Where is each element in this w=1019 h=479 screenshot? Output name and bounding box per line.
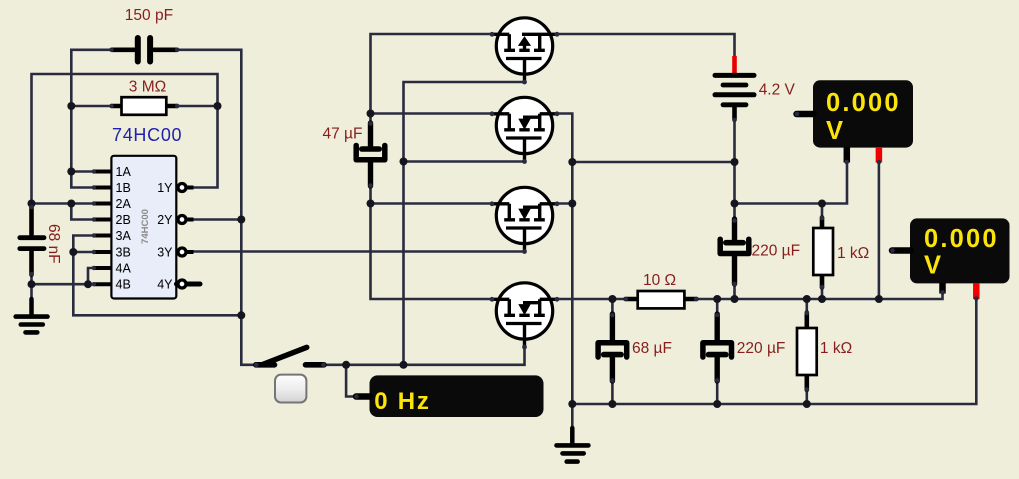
svg-text:74HC00: 74HC00 [140, 209, 151, 244]
svg-text:4.2 V: 4.2 V [759, 82, 796, 99]
svg-text:3Y: 3Y [157, 246, 173, 260]
svg-text:0.000: 0.000 [924, 225, 999, 253]
svg-text:220 µF: 220 µF [752, 243, 801, 260]
svg-text:2Y: 2Y [157, 213, 173, 227]
svg-text:4Y: 4Y [157, 278, 173, 292]
svg-text:74HC00: 74HC00 [112, 125, 182, 145]
svg-text:10 Ω: 10 Ω [643, 272, 676, 289]
svg-text:3B: 3B [116, 246, 131, 260]
svg-text:4A: 4A [116, 262, 132, 276]
svg-text:2A: 2A [116, 197, 132, 211]
svg-text:1B: 1B [116, 181, 131, 195]
svg-text:1Y: 1Y [157, 181, 173, 195]
svg-text:150 pF: 150 pF [125, 7, 173, 24]
svg-text:3A: 3A [116, 229, 132, 243]
svg-text:V: V [924, 252, 943, 280]
svg-text:1 kΩ: 1 kΩ [837, 245, 869, 262]
svg-text:0.000: 0.000 [826, 89, 901, 117]
svg-text:47 µF: 47 µF [323, 125, 363, 142]
svg-text:V: V [826, 117, 845, 145]
svg-text:68 nF: 68 nF [45, 224, 62, 264]
svg-text:4B: 4B [116, 278, 131, 292]
svg-text:220 µF: 220 µF [737, 340, 786, 357]
svg-text:2B: 2B [116, 213, 131, 227]
svg-text:68 µF: 68 µF [632, 340, 672, 357]
svg-text:1 kΩ: 1 kΩ [820, 340, 852, 357]
svg-text:1A: 1A [116, 165, 132, 179]
svg-text:0 Hz: 0 Hz [374, 388, 431, 415]
svg-text:3 MΩ: 3 MΩ [129, 78, 166, 95]
